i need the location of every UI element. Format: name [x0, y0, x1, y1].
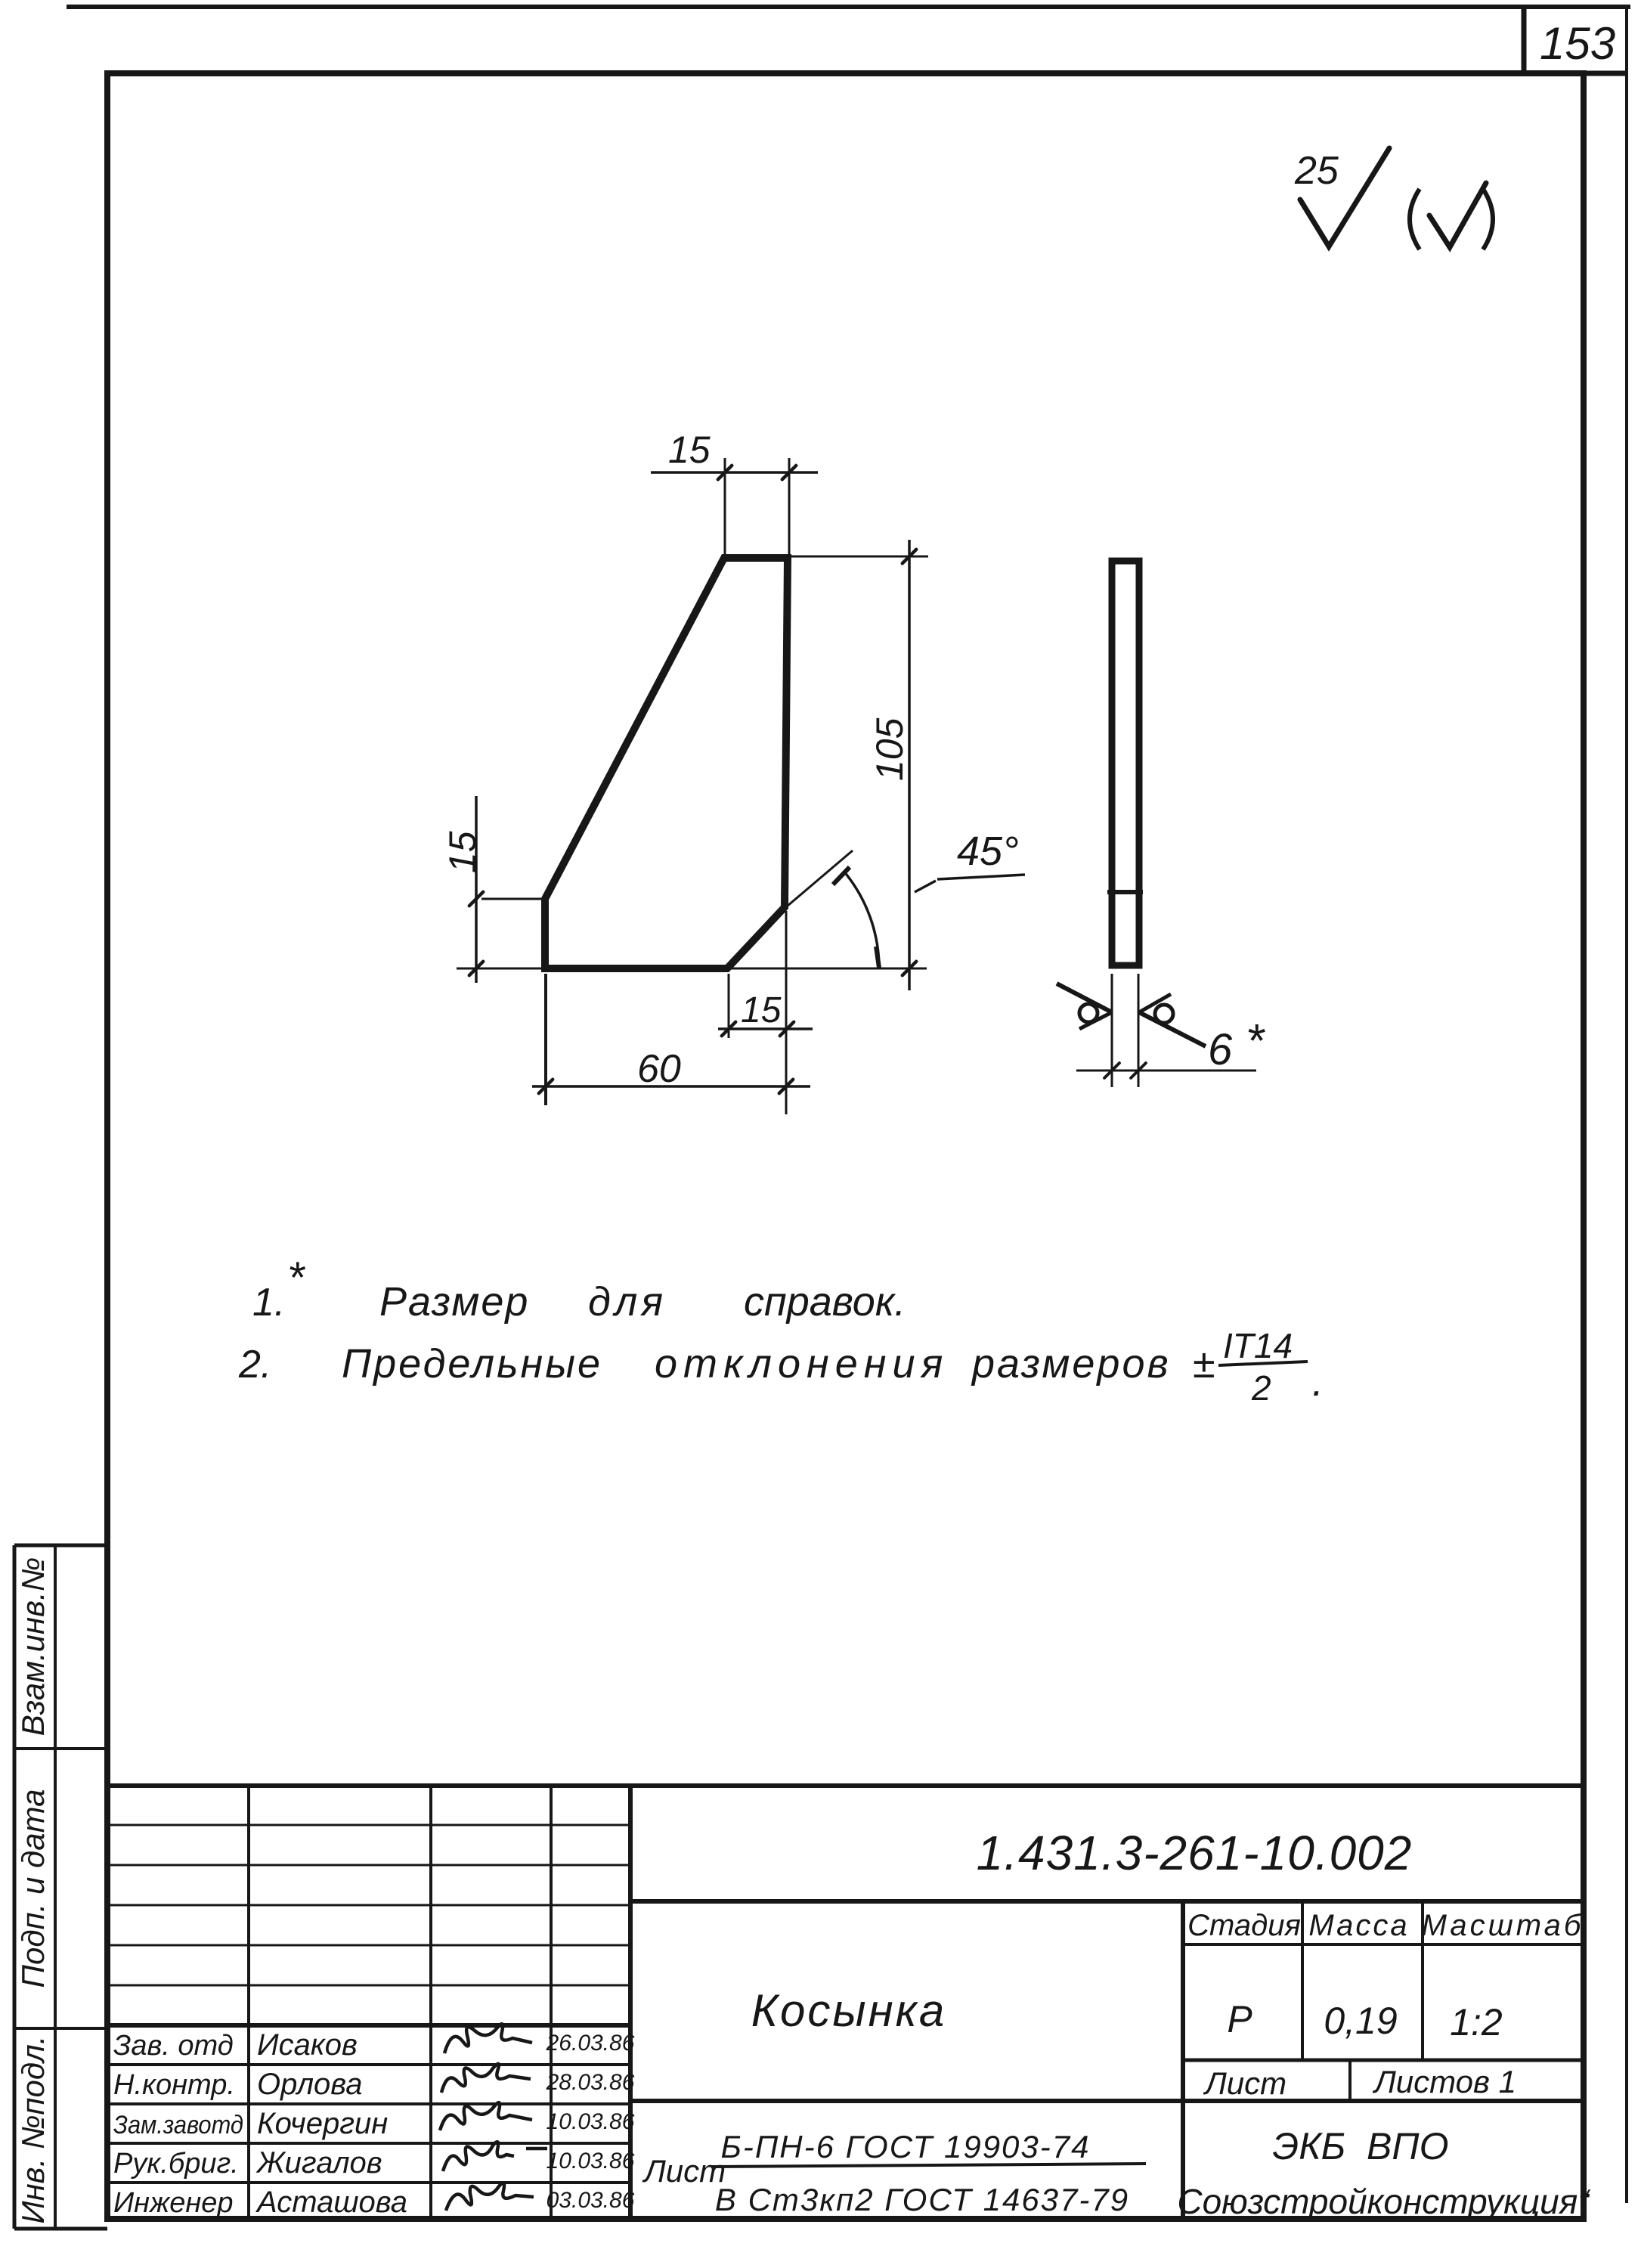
- svg-text:Асташова: Асташова: [255, 2186, 407, 2219]
- svg-text:±: ±: [1193, 1341, 1215, 1387]
- svg-text:Н.контр.: Н.контр.: [113, 2069, 235, 2101]
- svg-text:отклонения: отклонения: [655, 1341, 949, 1387]
- svg-text:*: *: [287, 1253, 306, 1303]
- svg-text:Инв. №подл.: Инв. №подл.: [15, 2036, 51, 2224]
- svg-text:Подп. и дата: Подп. и дата: [15, 1789, 51, 1988]
- svg-text:105: 105: [868, 717, 911, 781]
- svg-text:45°: 45°: [957, 829, 1019, 874]
- svg-text:Взам.инв.№: Взам.инв.№: [15, 1557, 51, 1736]
- svg-text:Рук.бриг.: Рук.бриг.: [113, 2148, 239, 2180]
- svg-text:Р: Р: [1227, 1998, 1252, 2040]
- svg-text:Предельные: Предельные: [342, 1341, 602, 1387]
- svg-text:28.03.86: 28.03.86: [546, 2070, 635, 2095]
- svg-text:60: 60: [637, 1047, 681, 1091]
- svg-text:Жигалов: Жигалов: [255, 2146, 382, 2180]
- svg-text:1.: 1.: [252, 1281, 285, 1325]
- svg-text:Размер: Размер: [379, 1279, 529, 1325]
- svg-text:Стадия: Стадия: [1187, 1909, 1301, 1942]
- svg-text:15: 15: [741, 990, 782, 1030]
- svg-text:В Ст3кп2 ГОСТ 14637-79: В Ст3кп2 ГОСТ 14637-79: [715, 2182, 1129, 2217]
- svg-text:ЭКБ ВПО: ЭКБ ВПО: [1273, 2125, 1449, 2167]
- svg-text:Масштаб: Масштаб: [1422, 1909, 1584, 1942]
- svg-text:6: 6: [1208, 1025, 1233, 1074]
- svg-text:Лист: Лист: [642, 2153, 726, 2189]
- svg-text:1:2: 1:2: [1450, 2001, 1503, 2043]
- svg-text:Инженер: Инженер: [113, 2187, 234, 2219]
- svg-text:IT14: IT14: [1223, 1326, 1293, 1365]
- svg-text:10.03.86: 10.03.86: [546, 2109, 635, 2134]
- svg-text:2.: 2.: [238, 1343, 271, 1387]
- svg-text:15: 15: [668, 429, 711, 471]
- svg-text:15: 15: [441, 831, 484, 873]
- svg-text:Масса: Масса: [1308, 1909, 1409, 1942]
- svg-text:Исаков: Исаков: [257, 2028, 358, 2062]
- svg-text:10.03.86: 10.03.86: [546, 2149, 635, 2173]
- svg-text:Зав. отд: Зав. отд: [113, 2030, 234, 2062]
- svg-text:Кочергин: Кочергин: [257, 2107, 388, 2140]
- svg-text:для: для: [588, 1279, 667, 1325]
- svg-text:25: 25: [1294, 149, 1339, 193]
- svg-text:03.03.86: 03.03.86: [546, 2188, 635, 2213]
- svg-text:0,19: 0,19: [1324, 2000, 1397, 2042]
- svg-text:Лист: Лист: [1203, 2065, 1286, 2101]
- svg-text:26.03.86: 26.03.86: [546, 2031, 635, 2056]
- svg-text:Листов 1: Листов 1: [1372, 2064, 1516, 2099]
- svg-text:Орлова: Орлова: [257, 2068, 363, 2101]
- svg-text:Косынка: Косынка: [751, 1985, 947, 2036]
- svg-text:справок.: справок.: [744, 1279, 906, 1325]
- svg-text:1.431.3-261-10.002: 1.431.3-261-10.002: [977, 1826, 1413, 1880]
- svg-text:Б-ПН-6 ГОСТ 19903-74: Б-ПН-6 ГОСТ 19903-74: [721, 2129, 1091, 2164]
- svg-text:.: .: [1312, 1359, 1324, 1405]
- svg-text:2: 2: [1251, 1368, 1271, 1408]
- svg-text:размеров: размеров: [971, 1341, 1171, 1387]
- svg-text:*: *: [1246, 1015, 1265, 1067]
- svg-text:153: 153: [1540, 18, 1615, 69]
- svg-text:Зам.завотд: Зам.завотд: [113, 2111, 243, 2139]
- svg-text:Союзстройконструкция“: Союзстройконструкция“: [1177, 2182, 1591, 2221]
